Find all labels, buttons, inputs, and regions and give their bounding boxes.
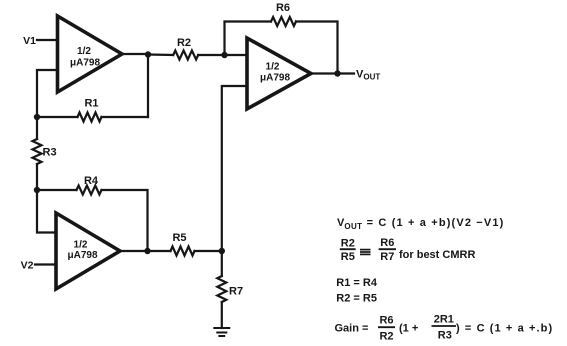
wire node E up to U2 inverting input [222,86,247,251]
svg-text:) = C (1 + a +.b): ) = C (1 + a +.b) [456,322,553,334]
svg-text:μA798: μA798 [67,250,97,261]
wire U1 inverting input to left vertical bus [37,70,58,117]
wire node C to R4 left [37,189,77,191]
wire U3 output to node D [120,250,148,252]
wire node F to U2 input [225,54,248,56]
resistor R1 [78,113,102,122]
node D (U3 output junction) [144,248,150,254]
op-amp U3 (1/2 uA798, bottom-left) [56,213,120,289]
wire node E down to R7 [221,251,223,276]
wire R4 right down to node D [102,190,148,251]
svg-text:Gain =: Gain = [335,322,369,334]
node E (R5/R7/U2 inverting junction) [219,248,225,254]
svg-text:R2 = R5: R2 = R5 [336,293,377,305]
formula line 2: R2/R5 = R6/R7 for best CMRR [340,237,476,263]
node G (R6 feedback/output junction) [334,70,340,76]
svg-text:(1 +: (1 + [399,322,418,334]
svg-text:R6: R6 [380,237,394,249]
node A (U1 output junction) [145,51,151,57]
svg-text:VOUT = C (1 + a +b)(V2 −V1): VOUT = C (1 + a +b)(V2 −V1) [337,217,504,231]
wire node D to R5 left [148,250,171,252]
resistor R2 [173,51,198,60]
node B (R1/R3 junction) [34,114,40,120]
wire node C bus down to U3 inverting input [37,190,56,233]
svg-text:1/2: 1/2 [74,240,88,251]
node F (R2/R6/U2 input junction) [221,52,227,58]
svg-text:μA798: μA798 [70,58,100,69]
svg-text:R7: R7 [229,286,243,298]
formula line 1: VOUT = C (1 + a +b)(V2 - V1) [337,217,504,231]
svg-text:VOUT: VOUT [356,69,380,82]
svg-text:R2: R2 [379,331,393,343]
wire U1 output to node A [122,53,148,55]
resistor R5 [171,247,195,256]
svg-text:R7: R7 [380,251,394,263]
resistor R4 [77,186,102,195]
op-amp U1 (1/2 uA798, top-left) [58,16,123,92]
svg-text:for best CMRR: for best CMRR [399,249,475,261]
wire R3 to node C [36,164,38,190]
wire node F up to R6 left [225,22,272,56]
wire V2 to U3 non-inverting input [35,263,56,265]
svg-text:R5: R5 [172,232,186,244]
svg-text:R4: R4 [84,175,99,187]
resistor R6 [271,17,296,26]
svg-text:R2: R2 [177,37,191,49]
wire V1 to U1 non-inverting input [37,39,58,41]
resistor R3 [33,139,42,164]
svg-text:R6: R6 [379,315,393,327]
svg-text:R1: R1 [84,98,98,110]
wire R2 right to node F [198,54,224,56]
svg-text:V2: V2 [21,260,34,272]
wire U2 output to VOUT [311,72,354,74]
node C (R3/R4 junction) [34,187,40,193]
wire R6 right down to node G [296,22,338,74]
wire R1 right to feedback drop [102,116,149,118]
svg-text:1/2: 1/2 [266,62,280,73]
wire node B to R3 [36,117,38,139]
svg-text:R3: R3 [438,330,452,342]
svg-text:R1 = R4: R1 = R4 [336,277,378,289]
wire R7 to ground [221,302,223,328]
svg-text:R3: R3 [43,147,57,159]
resistor R7 [217,276,226,302]
wire node B to R1 left [37,116,78,118]
svg-text:R2: R2 [341,238,355,250]
svg-text:V1: V1 [23,35,36,47]
svg-text:R5: R5 [341,251,355,263]
wire node A down to R1 [147,55,149,118]
svg-text:2R1: 2R1 [434,313,454,325]
svg-text:μA798: μA798 [260,73,290,84]
op-amp U2 (1/2 uA798, top-right) [247,38,311,109]
svg-text:R6: R6 [276,2,290,14]
svg-text:1/2: 1/2 [77,46,91,57]
wire R5 right to node E [195,250,222,252]
wire node A to R2 left [148,53,173,56]
formula line 5: Gain = R6/R2 (1 + 2R1/R3) = C (1 + a +.b) [335,313,554,342]
ground [214,328,229,336]
